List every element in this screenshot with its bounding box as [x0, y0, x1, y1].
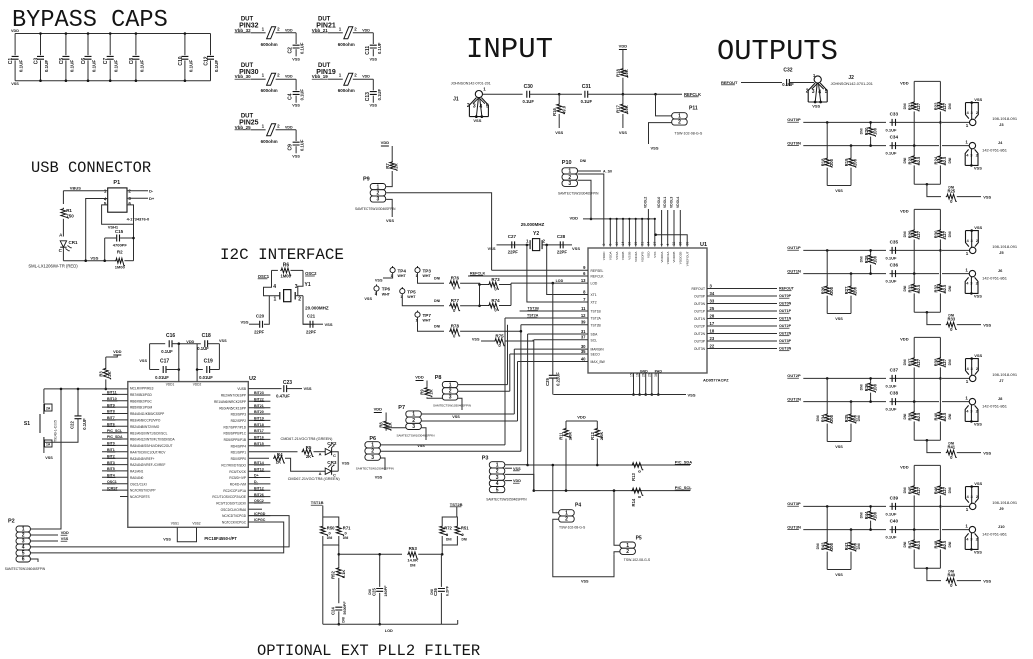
svg-text:SAMTECTSW103046SFPIN: SAMTECTSW103046SFPIN: [558, 192, 599, 196]
svg-text:VDD: VDD: [113, 349, 122, 354]
resistor R35 200: [850, 400, 853, 403]
svg-text:R32: R32: [934, 284, 939, 292]
svg-text:R8: R8: [379, 422, 384, 428]
svg-text:DNI: DNI: [903, 158, 907, 164]
svg-text:RC5/D+/VP: RC5/D+/VP: [229, 476, 246, 480]
svg-text:DNI: DNI: [903, 231, 907, 237]
svg-text:R12: R12: [590, 431, 595, 439]
wire SCL net: [534, 339, 588, 341]
wire XT crystal line: [497, 244, 531, 246]
svg-text:2: 2: [277, 123, 280, 128]
svg-text:J2: J2: [848, 75, 854, 81]
wire XT1 drop: [545, 244, 548, 247]
wire R26/R27 VSS: [827, 313, 851, 315]
svg-text:SDA: SDA: [591, 333, 599, 337]
svg-text:8: 8: [583, 289, 586, 294]
wire U1 top supply pin: [628, 219, 630, 247]
svg-text:R27: R27: [844, 286, 849, 294]
svg-text:P8: P8: [435, 375, 442, 381]
resistor R48 82.5: [939, 506, 941, 539]
svg-text:C21: C21: [307, 314, 316, 319]
wire U2 ICPGC to P2 pin5: [30, 522, 283, 553]
svg-text:31: 31: [581, 329, 586, 334]
wire U2 BIT17 stub: [248, 432, 270, 434]
svg-text:2.0K: 2.0K: [568, 432, 573, 441]
svg-text:R31: R31: [907, 284, 912, 292]
svg-text:0.1UF: 0.1UF: [886, 535, 897, 540]
svg-text:J9: J9: [999, 506, 1004, 511]
svg-text:RA0/AN0: RA0/AN0: [130, 476, 144, 480]
test point TP7: [415, 312, 420, 317]
svg-text:82.5: 82.5: [916, 540, 921, 549]
svg-text:Y2: Y2: [533, 231, 539, 237]
svg-text:USB CONNECTOR: USB CONNECTOR: [31, 159, 151, 177]
svg-text:29: 29: [648, 373, 652, 377]
svg-text:82.5: 82.5: [916, 284, 921, 293]
svg-text:VDD: VDD: [285, 28, 293, 32]
svg-text:14: 14: [621, 242, 625, 246]
wire C30 to C31: [559, 93, 582, 95]
svg-text:RD1/SPP1: RD1/SPP1: [231, 451, 247, 455]
svg-text:RD0/SPP0: RD0/SPP0: [231, 457, 247, 461]
svg-text:DNI: DNI: [948, 231, 952, 237]
svg-text:39: 39: [581, 320, 586, 325]
svg-text:4: 4: [966, 153, 969, 158]
svg-text:1: 1: [274, 296, 277, 302]
svg-text:P3: P3: [482, 456, 489, 462]
resistor R24 82.5: [939, 122, 941, 155]
wire U2 BIT1 stub: [102, 451, 128, 453]
svg-text:R24: R24: [934, 156, 939, 164]
svg-text:A: A: [319, 471, 322, 476]
svg-text:Vbb_21: Vbb_21: [312, 28, 329, 33]
svg-text:0.01UF: 0.01UF: [155, 375, 169, 380]
connector P11 jumper: [656, 94, 672, 116]
resistor R14 0 (SCL): [631, 488, 643, 495]
svg-text:39: 39: [685, 242, 689, 246]
svg-text:P10: P10: [562, 160, 572, 166]
svg-text:127: 127: [916, 230, 921, 238]
svg-text:DNI: DNI: [948, 542, 952, 548]
svg-text:VSS: VSS: [983, 578, 991, 583]
svg-text:1: 1: [339, 26, 342, 31]
svg-text:4: 4: [966, 281, 969, 286]
svg-text:C24: C24: [331, 606, 336, 614]
svg-text:VDDA: VDDA: [609, 251, 613, 261]
wire SECO to P8 pin2: [509, 354, 511, 391]
svg-text:0.1UF: 0.1UF: [139, 60, 144, 73]
resistor R25 0 to VSS: [927, 184, 941, 196]
svg-text:CR1: CR1: [69, 240, 78, 245]
svg-text:RD5/SPP5/P1B: RD5/SPP5/P1B: [224, 438, 246, 442]
svg-text:LOD: LOD: [591, 282, 598, 286]
svg-text:RD3/SPP3: RD3/SPP3: [231, 413, 247, 417]
svg-text:VBUS: VBUS: [70, 185, 81, 190]
svg-text:R7: R7: [385, 163, 390, 169]
svg-text:7: 7: [583, 297, 586, 302]
svg-text:RA1/AN1: RA1/AN1: [130, 470, 144, 474]
svg-text:0.1UF: 0.1UF: [44, 60, 49, 73]
svg-text:20.000MHZ: 20.000MHZ: [305, 305, 329, 310]
wire SCL drop: [533, 340, 535, 491]
svg-text:127: 127: [942, 486, 947, 494]
svg-text:C10: C10: [178, 56, 184, 65]
svg-text:R39: R39: [907, 412, 912, 420]
svg-text:3: 3: [371, 455, 374, 461]
svg-text:2: 2: [806, 89, 809, 95]
svg-text:R3: R3: [98, 371, 103, 377]
svg-text:NC/ICPORTS: NC/ICPORTS: [130, 495, 150, 499]
svg-text:MCLR/VPP/RE3: MCLR/VPP/RE3: [130, 387, 154, 391]
svg-text:18: 18: [710, 328, 715, 333]
capacitor C3 0.1UF: [40, 34, 42, 56]
wire R73/R74 right junction: [510, 285, 512, 306]
svg-text:13: 13: [581, 278, 586, 283]
svg-text:VSS: VSS: [369, 57, 377, 61]
svg-text:OUT0P: OUT0P: [779, 294, 792, 298]
wire J1 to C30: [483, 93, 523, 95]
svg-text:BIT2: BIT2: [107, 454, 115, 458]
svg-text:OSC2: OSC2: [254, 499, 264, 503]
svg-text:OPTIONAL EXT PLL2 FILTER: OPTIONAL EXT PLL2 FILTER: [257, 642, 480, 659]
svg-text:RD6/SPP6/P1C: RD6/SPP6/P1C: [224, 432, 247, 436]
svg-text:35: 35: [679, 242, 683, 246]
svg-text:BIT0: BIT0: [107, 442, 115, 446]
svg-text:PIC_SCL: PIC_SCL: [675, 485, 692, 490]
svg-text:BIT19: BIT19: [254, 417, 264, 421]
svg-text:VSS: VSS: [90, 255, 98, 260]
resistor R47 82.5: [913, 530, 915, 539]
capacitor C6 0.1UF: [87, 34, 89, 56]
svg-text:C: C: [59, 248, 63, 253]
svg-text:LOD: LOD: [385, 629, 393, 633]
svg-text:BIT26: BIT26: [254, 493, 264, 497]
svg-text:VSS: VSS: [325, 322, 333, 327]
svg-text:R16: R16: [552, 107, 557, 115]
svg-text:VSS: VSS: [835, 317, 843, 321]
svg-text:VSS: VSS: [369, 104, 377, 108]
svg-text:VSS: VSS: [572, 246, 580, 251]
svg-text:OUT2N: OUT2N: [779, 332, 792, 336]
svg-text:VSS: VSS: [304, 386, 312, 391]
svg-text:RC0/T1OSO/T13CKI: RC0/T1OSO/T13CKI: [216, 502, 246, 506]
capacitor C11 0.1UF (DUT PIN21): [372, 33, 374, 44]
svg-text:TSW-102-08-G-S: TSW-102-08-G-S: [674, 132, 702, 136]
svg-text:0.1UF: 0.1UF: [377, 89, 382, 101]
IC U1 AD9577ACPZ: [588, 248, 707, 373]
svg-text:VSS: VSS: [974, 294, 982, 299]
wire U2 BIT2 stub: [102, 457, 128, 459]
svg-text:OUT0P: OUT0P: [694, 295, 706, 299]
svg-text:100: 100: [872, 383, 877, 391]
svg-text:RD2/SPP2: RD2/SPP2: [231, 419, 247, 423]
svg-text:VDD: VDD: [900, 336, 909, 341]
svg-text:27: 27: [653, 242, 657, 246]
svg-text:1: 1: [965, 140, 968, 145]
wire filter right rail: [441, 545, 443, 554]
wire R42/R43 VSS: [827, 569, 851, 571]
wire MARGIN net: [514, 348, 588, 350]
svg-text:INPUT: INPUT: [466, 33, 553, 66]
wire TST2B riser from P8 pin1: [507, 325, 509, 385]
svg-text:22PF: 22PF: [254, 329, 264, 334]
resistor R43 200: [850, 528, 853, 531]
svg-text:4: 4: [479, 104, 482, 110]
capacitor C5 0.1UF: [65, 34, 67, 56]
resistor R20 100 across pair: [870, 122, 872, 126]
svg-text:VDD: VDD: [577, 415, 586, 420]
svg-text:0.1UF: 0.1UF: [19, 60, 24, 73]
svg-text:127: 127: [942, 102, 947, 110]
svg-text:0.22UF: 0.22UF: [555, 372, 560, 386]
svg-text:198-1918-091: 198-1918-091: [992, 372, 1018, 377]
wire U1 GND pin 15: [633, 373, 635, 395]
svg-text:R75: R75: [495, 333, 504, 338]
svg-text:VDD2: VDD2: [193, 383, 202, 387]
svg-text:198-1918-091: 198-1918-091: [992, 244, 1018, 249]
svg-text:VSS2: VSS2: [192, 522, 200, 526]
svg-text:12: 12: [581, 313, 586, 318]
svg-text:0.1UF: 0.1UF: [197, 346, 209, 351]
svg-text:3: 3: [412, 424, 415, 430]
svg-text:REFCLK: REFCLK: [470, 271, 486, 275]
svg-text:3: 3: [377, 197, 380, 203]
svg-text:28: 28: [710, 313, 715, 318]
svg-text:22PF: 22PF: [557, 250, 567, 255]
svg-text:C34: C34: [890, 135, 899, 140]
svg-text:82.5: 82.5: [942, 412, 947, 421]
svg-text:R46: R46: [934, 486, 939, 494]
svg-text:4700PF: 4700PF: [113, 243, 128, 248]
svg-text:DNI: DNI: [368, 589, 372, 595]
wire VBUS from P1 pin1: [63, 190, 107, 192]
svg-text:DNI: DNI: [948, 158, 952, 164]
svg-text:VSS: VSS: [619, 130, 627, 135]
capacitor C29 0.22UF: [552, 283, 554, 375]
svg-text:P9: P9: [363, 177, 370, 183]
svg-text:R45: R45: [907, 486, 912, 494]
svg-text:10K: 10K: [624, 69, 629, 77]
svg-text:2: 2: [354, 26, 357, 31]
svg-text:1M00: 1M00: [115, 264, 126, 269]
wire U2 BIT0 stub: [102, 444, 128, 446]
svg-text:VSSB: VSSB: [628, 252, 632, 260]
svg-text:C3: C3: [34, 58, 40, 65]
resistor R1 750: [61, 208, 68, 219]
svg-text:0.1UF: 0.1UF: [377, 42, 382, 54]
resistor R71 0 DNI: [323, 517, 339, 525]
resistor R27 200: [850, 272, 853, 275]
svg-text:DNI: DNI: [948, 186, 954, 190]
svg-text:R13: R13: [631, 472, 636, 480]
svg-text:WHT: WHT: [398, 274, 407, 278]
svg-text:P4: P4: [575, 503, 581, 509]
resistor R29 127: [913, 209, 915, 229]
svg-text:0.1UF: 0.1UF: [69, 60, 74, 73]
svg-text:C40: C40: [890, 519, 899, 524]
wire termination bottom rail 0: [914, 183, 940, 185]
wire USB ground rail: [63, 260, 115, 262]
svg-text:DNI: DNI: [903, 103, 907, 109]
resistor R52 5.1K: [338, 545, 340, 567]
svg-text:3: 3: [971, 494, 974, 499]
svg-text:4: 4: [967, 366, 970, 371]
svg-text:VSS: VSS: [835, 189, 843, 193]
svg-text:600ohm: 600ohm: [261, 42, 278, 47]
wire U1 GND pin 16: [639, 373, 641, 395]
svg-text:LOD: LOD: [556, 279, 564, 283]
svg-text:R35: R35: [844, 414, 849, 422]
svg-text:34: 34: [710, 291, 715, 296]
svg-text:NC/ICDT/ICPGD: NC/ICDT/ICPGD: [222, 514, 247, 518]
svg-text:VSS: VSS: [487, 246, 495, 251]
svg-text:127: 127: [916, 358, 921, 366]
svg-text:PAD: PAD: [655, 369, 663, 373]
svg-text:VSS: VSS: [11, 82, 19, 86]
svg-text:R18: R18: [616, 68, 621, 76]
resistor R12 2.0K pullup: [596, 421, 598, 428]
resistor R40 82.5: [939, 378, 941, 411]
svg-text:C2: C2: [288, 47, 294, 54]
svg-text:C8: C8: [129, 58, 135, 65]
svg-text:DNI: DNI: [859, 256, 863, 262]
svg-text:VSS: VSS: [139, 359, 147, 363]
svg-text:198-1918-091: 198-1918-091: [992, 500, 1018, 505]
svg-text:VDOL4: VDOL4: [676, 197, 680, 208]
svg-text:VDD1: VDD1: [166, 383, 175, 387]
svg-text:J4: J4: [998, 140, 1003, 145]
svg-text:4: 4: [967, 110, 970, 115]
wire TST2A to P6 pin1: [504, 318, 506, 445]
wire P3 pin1 to SDA: [505, 464, 528, 466]
svg-text:2K: 2K: [107, 371, 112, 376]
wire U2 ICPGD stub: [248, 515, 270, 517]
svg-text:RC4/D-/VM: RC4/D-/VM: [230, 483, 247, 487]
svg-text:P1: P1: [113, 180, 120, 186]
svg-text:C12: C12: [204, 56, 210, 65]
svg-text:SML-LX1206IW-TR (RED): SML-LX1206IW-TR (RED): [28, 263, 78, 268]
svg-text:0.1UF: 0.1UF: [300, 42, 305, 54]
wire U2 BIT16 stub: [248, 438, 270, 440]
svg-text:DNI: DNI: [342, 617, 346, 623]
wire P2 pin3 VSS: [30, 540, 58, 542]
resistor R34 200: [826, 377, 829, 380]
svg-text:R20: R20: [864, 127, 869, 135]
svg-text:C37: C37: [890, 368, 899, 373]
svg-text:VDD: VDD: [11, 29, 19, 33]
svg-text:VDD: VDD: [362, 75, 370, 79]
resistor R13 0 (SDA): [631, 463, 643, 470]
svg-text:VDD: VDD: [647, 251, 651, 258]
wire P9 pin3 to VSS: [386, 199, 392, 217]
svg-text:DNI: DNI: [859, 512, 863, 518]
svg-text:C11: C11: [365, 46, 371, 55]
svg-text:Y1: Y1: [305, 282, 311, 288]
svg-text:142-0761-861: 142-0761-861: [982, 532, 1008, 537]
wire U1 VDOL3 pin: [673, 210, 675, 247]
svg-text:R78: R78: [451, 324, 460, 329]
svg-text:BIT22: BIT22: [254, 398, 264, 402]
svg-text:15: 15: [629, 373, 633, 377]
svg-text:VSS: VSS: [163, 538, 171, 542]
svg-text:VSS: VSS: [240, 320, 248, 325]
svg-text:R2: R2: [117, 250, 123, 255]
wire TST2B net: [521, 324, 588, 326]
svg-text:OUT1P: OUT1P: [779, 309, 792, 313]
svg-text:C35: C35: [890, 240, 899, 245]
svg-text:DNI: DNI: [903, 542, 907, 548]
wire U1 GND pin 36: [657, 373, 659, 395]
svg-text:1: 1: [966, 379, 969, 384]
svg-text:RC2/CCP1/P1A: RC2/CCP1/P1A: [223, 489, 247, 493]
svg-text:0.1UF: 0.1UF: [188, 60, 193, 73]
svg-text:2: 2: [354, 73, 357, 78]
wire P3 pin3 to SCL riser: [505, 474, 534, 490]
svg-text:BIT14: BIT14: [254, 461, 264, 465]
svg-text:RE1/AN6/WRCK2SPP: RE1/AN6/WRCK2SPP: [214, 400, 246, 404]
svg-text:0.1UF: 0.1UF: [82, 418, 87, 430]
svg-text:R23: R23: [907, 156, 912, 164]
wire R18/R19 VSS: [827, 185, 851, 187]
resistor R21 127: [913, 81, 915, 101]
svg-text:5: 5: [486, 104, 489, 110]
svg-text:Vbb_32: Vbb_32: [235, 28, 252, 33]
svg-text:PIC_SDA: PIC_SDA: [107, 435, 123, 439]
svg-text:VSS: VSS: [452, 415, 460, 419]
svg-text:2: 2: [565, 517, 568, 523]
svg-text:OUT3P: OUT3P: [779, 339, 792, 343]
svg-text:TP7: TP7: [423, 313, 432, 318]
svg-text:DNI: DNI: [327, 536, 333, 540]
svg-text:750: 750: [66, 213, 74, 218]
svg-text:198-1918-091: 198-1918-091: [992, 116, 1018, 121]
svg-text:DNI: DNI: [903, 286, 907, 292]
svg-text:0.1UF: 0.1UF: [581, 99, 593, 104]
svg-text:BIT17: BIT17: [254, 429, 264, 433]
svg-text:0: 0: [637, 470, 642, 473]
svg-text:0.1UF: 0.1UF: [886, 127, 897, 132]
svg-text:A_S0: A_S0: [603, 170, 612, 174]
svg-text:XT1: XT1: [591, 293, 597, 297]
svg-text:VSS: VSS: [364, 297, 372, 301]
svg-text:RC1/T1OSI/CCP2/UOE: RC1/T1OSI/CCP2/UOE: [212, 495, 246, 499]
svg-text:R44: R44: [864, 511, 869, 519]
svg-text:RB0/AN12/INT0/FLT0/SDI/SDA: RB0/AN12/INT0/FLT0/SDI/SDA: [130, 438, 175, 442]
svg-text:R19: R19: [844, 158, 849, 166]
svg-text:R42: R42: [820, 542, 825, 550]
svg-text:BIT8: BIT8: [107, 410, 115, 414]
svg-text:49.9: 49.9: [562, 105, 567, 114]
resistor R19 200: [850, 144, 853, 147]
svg-text:TST2A: TST2A: [527, 314, 539, 318]
svg-text:14.0K: 14.0K: [407, 558, 418, 563]
IC U2 PIC18F4550-I/PT: [128, 382, 249, 528]
svg-text:0.1UF: 0.1UF: [114, 60, 119, 73]
svg-text:DNI: DNI: [343, 536, 349, 540]
svg-text:VSS: VSS: [342, 462, 350, 466]
svg-text:4-1734376-0: 4-1734376-0: [127, 217, 150, 222]
svg-text:10: 10: [615, 242, 619, 246]
svg-text:1: 1: [966, 507, 969, 512]
svg-text:142-0761-861: 142-0761-861: [982, 404, 1008, 409]
wire P5 pin2 stub: [614, 552, 620, 555]
svg-text:RC6/TX/CK: RC6/TX/CK: [229, 470, 247, 474]
svg-text:DNI: DNI: [857, 415, 861, 421]
svg-text:R77: R77: [451, 298, 460, 303]
svg-text:OUT1N: OUT1N: [787, 268, 801, 273]
svg-text:U2: U2: [249, 376, 256, 382]
svg-text:R52: R52: [331, 570, 336, 578]
